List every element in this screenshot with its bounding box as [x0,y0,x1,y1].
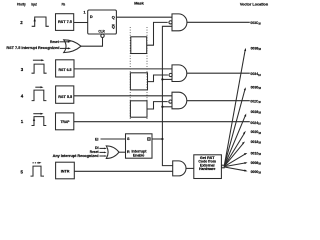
mask bit box M5.5 [130,101,147,117]
wire G2 output to vector 0034 [187,72,250,74]
fan arrow to 0028 [224,115,245,165]
junction dot S-R output [161,138,163,140]
pin box RST 7.5 [56,14,74,31]
Any Interrupt Recognized wire into OR2 [99,155,105,157]
wire INTR to G4 [74,170,172,172]
fan arrow to 0030 [224,89,245,165]
svg-text:Any Interrupt Recognized: Any Interrupt Recognized [53,154,99,158]
output node square [222,165,225,168]
G1 inverting bubble [169,21,172,24]
wire enable latch output to enable line [152,138,162,140]
wire G3 output to vector 002C [187,100,250,102]
svg-text:S: S [127,136,130,141]
svg-text:1: 1 [83,11,85,15]
wire G1 output to vector 003C [187,21,250,23]
wire RST6.5 to G2 [74,68,172,70]
svg-text:Vector Location: Vector Location [240,2,269,7]
svg-text:Hardware: Hardware [199,167,216,171]
wire RST5.5 to G3 [74,95,172,97]
G2 inverting bubble [169,73,172,76]
OR gate OR2 (reset of enable FF) [106,146,119,159]
svg-text:Priority: Priority [17,1,26,6]
wire OR output to CLR bubble [81,38,103,47]
wire enable to G3 [162,106,172,108]
wire TRAP direct to vector 0024 [74,121,250,123]
TRAP input waveform [32,117,47,126]
up arrow on TRAP rising edge [33,118,35,121]
svg-text:INTR: INTR [61,169,70,174]
svg-text:RST 7.5 Interrupt Recognized: RST 7.5 Interrupt Recognized [6,45,60,50]
CLR bubble [101,34,104,37]
Reset wire into OR2 [99,151,105,153]
interrupt enable line (vertical) [162,26,172,165]
RST 6.5 sample arrow [33,59,43,61]
wire M7.5 to G1 inverted input [147,22,168,45]
enable output pin square [148,138,150,140]
RST 7.5 input waveform (edge-triggered pulse) [32,17,49,26]
RST 6.5 input waveform [32,64,47,73]
svg-text:EI: EI [95,137,98,141]
RST 5.5 sample arrow [35,86,41,88]
svg-text:TRAP: TRAP [60,119,69,124]
S-R interrupt enable latch [126,134,153,158]
junction dot G3 enable [161,106,163,108]
pin box RST 5.5 [56,86,74,103]
fan arrow to 0008 [224,163,245,167]
Get RST Code from External Hardware box [194,155,222,179]
wire M5.5 to G3 inverted input [147,102,168,109]
G3 inverting bubble [169,100,172,103]
INTR sample arrow (dashed) [33,162,40,164]
svg-text:RST 6.5: RST 6.5 [58,67,72,72]
INTR input waveform [31,166,45,176]
OR gate for CLR [64,40,81,53]
fan arrow to 0018 [224,144,243,167]
fan arrow to 0010 [224,154,245,167]
DI wire into OR2 [99,147,105,149]
mask column dashed line left [129,27,131,120]
AND gate G3 (RST 5.5) [172,92,187,109]
wire OR2 to R input [119,151,126,153]
fan arrow to 0020 [224,134,244,166]
svg-text:CLR: CLR [98,30,105,34]
AND gate G4 (INTR) [173,161,186,176]
Reset wire into OR [59,41,68,43]
AND gate G2 (RST 6.5) [172,65,187,82]
wire Q to AND gate G1 [116,16,172,18]
wire G4 output to Get RST Code box [186,167,194,169]
pin box INTR [56,162,75,179]
svg-text:D: D [90,14,93,19]
RST 7.5 Interrupt Recognized wire into OR [60,47,69,49]
pin box TRAP [56,113,74,130]
wire enable to G2 [162,78,172,80]
svg-text:Pin: Pin [62,1,66,6]
up arrow on RST 7.5 rising edge [34,18,36,21]
pin box RST 6.5 [56,60,74,77]
svg-text:RST 5.5: RST 5.5 [58,94,73,99]
wire EI to S input [101,138,126,140]
svg-text:RST 7.5: RST 7.5 [58,19,73,24]
junction dot G2 enable [161,78,163,80]
D flip-flop U1 [88,10,117,34]
wire M6.5 to G2 inverted input [148,75,168,82]
svg-text:Reset: Reset [50,39,59,44]
TRAP sample arrow [33,113,41,115]
mask bit box M7.5 [131,37,147,54]
mask column dashed line right [146,27,148,120]
svg-text:R: R [127,149,130,154]
svg-text:Q: Q [112,14,115,19]
mask bit box M6.5 [130,73,147,90]
AND gate G1 (RST 7.5) [172,14,187,31]
fan arrow to 0000 [224,167,245,171]
svg-text:Mask: Mask [134,1,144,6]
svg-text:Enable: Enable [133,154,145,158]
fan arrow to 0038 [224,50,245,165]
RST 5.5 input waveform [32,90,47,101]
svg-text:Input: Input [31,1,37,6]
wire RST7.5 box to flip-flop [74,22,88,24]
